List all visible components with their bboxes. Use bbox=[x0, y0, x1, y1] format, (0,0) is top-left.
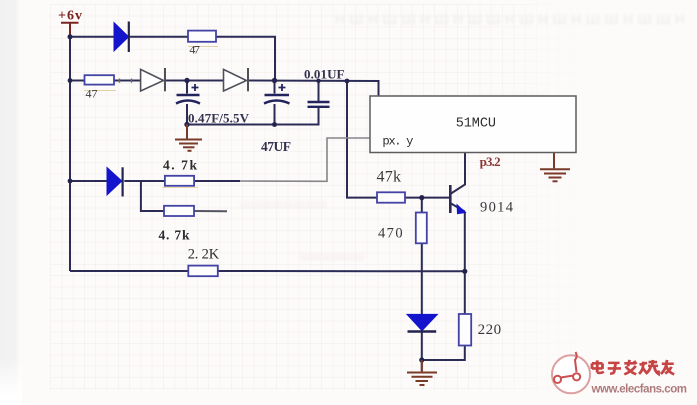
svg-text:9014: 9014 bbox=[480, 200, 514, 216]
svg-text:2. 2K: 2. 2K bbox=[188, 247, 220, 263]
svg-text:www.elecfans.com: www.elecfans.com bbox=[591, 384, 688, 396]
svg-text:47: 47 bbox=[189, 43, 200, 57]
svg-text:220: 220 bbox=[478, 322, 502, 338]
svg-text:4. 7k: 4. 7k bbox=[159, 228, 190, 243]
svg-text:+6v: +6v bbox=[58, 9, 82, 24]
svg-text:47UF: 47UF bbox=[261, 139, 291, 154]
svg-text:47: 47 bbox=[86, 87, 98, 101]
svg-text:47k: 47k bbox=[377, 169, 402, 186]
svg-text:470: 470 bbox=[378, 226, 403, 242]
svg-text:4. 7k: 4. 7k bbox=[163, 158, 197, 173]
svg-text:0.47F/5.5V: 0.47F/5.5V bbox=[188, 110, 250, 125]
svg-text:0.01UF: 0.01UF bbox=[304, 67, 345, 82]
svg-text:51MCU: 51MCU bbox=[456, 117, 496, 132]
svg-text:px. y: px. y bbox=[382, 135, 413, 149]
svg-text:p3.2: p3.2 bbox=[480, 154, 501, 169]
